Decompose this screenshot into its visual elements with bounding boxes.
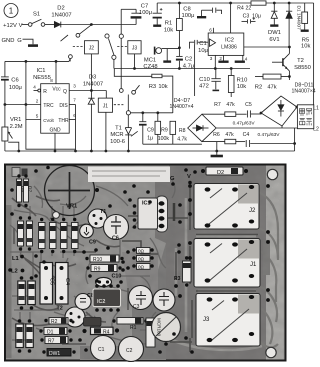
svg-text:R3: R3 — [174, 276, 181, 282]
junction — [90, 89, 93, 92]
svg-text:R4: R4 — [237, 5, 244, 11]
svg-text:D4~D7: D4~D7 — [174, 98, 190, 104]
diode D6 pcb — [17, 174, 26, 207]
ground coupling cap — [197, 16, 206, 18]
traces in dark zone — [258, 192, 278, 347]
junction — [4, 103, 7, 106]
svg-text:T2: T2 — [297, 58, 304, 64]
svg-text:0Ω: 0Ω — [138, 265, 145, 270]
svg-text:IC1: IC1 — [36, 68, 45, 74]
svg-text:C3: C3 — [133, 304, 140, 310]
svg-text:C6: C6 — [112, 236, 119, 242]
svg-text:C4: C4 — [243, 132, 250, 138]
ic IC1 pcb — [133, 196, 174, 232]
wire — [45, 24, 55, 26]
ground main — [211, 151, 223, 156]
diode D1 — [286, 3, 302, 47]
relay J1 — [194, 239, 260, 288]
junction — [55, 60, 58, 63]
svg-text:GND: GND — [49, 128, 61, 134]
svg-text:R2: R2 — [51, 319, 58, 325]
capacitor C9 — [139, 113, 154, 144]
wire +12V rail — [61, 24, 136, 26]
svg-text:0Ω: 0Ω — [138, 249, 145, 254]
resistor R4 — [237, 1, 266, 11]
svg-text:8: 8 — [50, 78, 53, 83]
wire vcc bus 555 — [5, 60, 69, 62]
svg-text:L2: L2 — [313, 127, 319, 133]
transistor T2 pcb — [57, 306, 86, 328]
junction — [178, 67, 181, 70]
resistor R6 — [202, 132, 245, 144]
svg-text:CZ48: CZ48 — [143, 64, 157, 70]
pin 6 threshold — [69, 113, 76, 120]
relay contact K2 — [61, 25, 92, 62]
svg-text:MCR100: MCR100 — [157, 318, 162, 337]
edge strip left — [6, 205, 12, 358]
svg-text:J1: J1 — [103, 104, 109, 110]
diode D2 pcb — [201, 167, 248, 176]
pin 7 discharge — [69, 98, 76, 105]
via pad — [53, 212, 60, 219]
svg-text:0.47μ/63V: 0.47μ/63V — [258, 132, 281, 138]
junction — [288, 2, 291, 5]
pcb board — [5, 165, 286, 361]
svg-text:Vcc: Vcc — [52, 87, 61, 93]
timer U1 NE555 — [33, 68, 69, 134]
svg-text:R10: R10 — [237, 78, 248, 84]
wire bridge1 to rail — [216, 142, 218, 151]
label D4-D7 — [169, 98, 193, 110]
junction — [133, 67, 136, 70]
capacitor coupling top — [202, 8, 222, 16]
svg-text:100k: 100k — [158, 136, 170, 142]
svg-text:1N4007: 1N4007 — [51, 13, 71, 19]
capacitor C2 — [176, 48, 194, 70]
junction — [156, 111, 159, 114]
svg-text:R6: R6 — [213, 132, 220, 138]
svg-text:Q: Q — [63, 89, 67, 95]
svg-text:R7: R7 — [48, 339, 55, 345]
svg-text:DW1: DW1 — [49, 351, 60, 357]
svg-text:47k: 47k — [267, 84, 276, 90]
svg-text:NE555: NE555 — [33, 75, 51, 81]
svg-text:R2: R2 — [255, 84, 262, 90]
ground plane dark zone — [155, 166, 266, 360]
diode D3 — [83, 75, 103, 152]
wire IC2 out — [244, 46, 290, 48]
relay J3 — [196, 294, 260, 347]
junction — [17, 150, 20, 153]
pin 2 trigger — [5, 99, 41, 105]
diode 1N34 pcb — [146, 318, 159, 347]
capacitor C8 — [153, 3, 195, 26]
svg-text:100-6: 100-6 — [110, 139, 125, 145]
resistor R2 pcb — [44, 318, 72, 326]
svg-text:1N4007: 1N4007 — [83, 82, 103, 88]
zener DW1 pcb — [42, 349, 75, 357]
resistor R5 — [301, 3, 311, 50]
svg-text:J2: J2 — [249, 208, 256, 214]
wire vr1 wiper to rail — [8, 142, 19, 151]
junction — [273, 2, 276, 5]
junction — [178, 46, 181, 49]
resistor R3 — [149, 74, 173, 113]
junction — [178, 2, 181, 5]
resistor R8 — [170, 121, 187, 144]
component top edge — [12, 168, 28, 177]
thyristor big pcb — [152, 313, 181, 342]
capacitor C3 — [242, 13, 261, 23]
corner patch — [88, 167, 170, 183]
bridge rectifier D4-D7 — [188, 114, 216, 141]
ic IC2 pcb — [93, 284, 121, 312]
junction — [288, 46, 291, 49]
svg-text:22: 22 — [246, 5, 252, 11]
svg-text:DIS: DIS — [59, 103, 68, 109]
zener DW1 — [268, 3, 281, 43]
mount hole bottom — [266, 347, 276, 357]
svg-text:C7: C7 — [141, 4, 148, 10]
svg-text:472: 472 — [199, 84, 209, 90]
junction — [215, 150, 218, 153]
svg-text:D2: D2 — [57, 6, 64, 12]
capacitor C10 pcb — [96, 274, 122, 287]
junction — [288, 75, 291, 78]
svg-text:J1: J1 — [250, 262, 257, 268]
svg-text:4: 4 — [33, 85, 36, 90]
relay contact K3 — [105, 34, 124, 69]
component dark pcb — [84, 318, 102, 327]
pin 6 — [209, 28, 213, 34]
light strip right column — [266, 166, 284, 360]
wire dis/thr down — [75, 105, 77, 152]
switch S1 — [28, 12, 44, 27]
relay coil J1 — [98, 91, 123, 152]
svg-text:6: 6 — [209, 28, 212, 33]
thyristor T1 — [110, 9, 139, 151]
svg-text:10k: 10k — [237, 84, 246, 90]
capacitor C9 pcb — [80, 224, 96, 245]
junction — [141, 111, 144, 114]
wire lower bus — [143, 143, 202, 145]
resistor R7 pcb — [40, 337, 72, 345]
svg-text:100μ: 100μ — [181, 13, 194, 19]
capacitor C6 pcb — [104, 215, 129, 242]
svg-text:1N4007×4: 1N4007×4 — [169, 104, 193, 110]
svg-text:0Ω: 0Ω — [138, 257, 145, 262]
junction — [54, 150, 57, 153]
svg-text:7: 7 — [73, 98, 76, 103]
resistor R9 — [155, 113, 169, 144]
pin 1 ground wire — [54, 133, 56, 151]
svg-text:4.7k: 4.7k — [177, 137, 187, 143]
wire rail upper segment — [121, 8, 136, 10]
junction — [230, 67, 233, 70]
svg-text:R9: R9 — [161, 128, 168, 134]
op-amp IC2 — [208, 33, 244, 55]
svg-text:47k: 47k — [226, 102, 235, 108]
svg-text:L1: L1 — [12, 256, 20, 262]
capacitor C4 pcb — [40, 263, 55, 305]
transistor T2 — [272, 47, 311, 80]
junction — [90, 23, 93, 26]
jumper 0R c — [137, 264, 151, 270]
wire L2 — [216, 127, 312, 129]
svg-text:IC2: IC2 — [225, 38, 234, 44]
svg-text:100μ: 100μ — [9, 85, 22, 91]
svg-text:2.2M: 2.2M — [10, 124, 23, 130]
junction — [25, 60, 28, 63]
scattered pads — [8, 166, 270, 354]
wire trigger branch — [114, 69, 152, 77]
wire branch — [194, 45, 196, 97]
wire gate bus — [131, 112, 173, 114]
junction — [74, 150, 77, 153]
svg-text:J2: J2 — [89, 46, 95, 52]
svg-text:10k: 10k — [158, 84, 167, 90]
svg-text:C6: C6 — [11, 78, 18, 84]
wire contact to bus — [69, 59, 70, 62]
junction — [293, 142, 296, 145]
wire cv loop — [26, 120, 76, 150]
junction — [260, 112, 263, 115]
wire — [22, 24, 29, 26]
ground mic — [163, 49, 171, 62]
diode D2 — [51, 6, 71, 28]
svg-text:1μ: 1μ — [147, 136, 153, 142]
resistor R10 — [228, 69, 247, 98]
junction — [25, 103, 28, 106]
svg-text:2: 2 — [219, 56, 222, 61]
svg-text:3: 3 — [73, 84, 76, 89]
capacitor C2 pcb — [119, 337, 144, 362]
svg-text:C4: C4 — [64, 278, 70, 285]
wire bottom rail — [5, 150, 295, 152]
svg-text:R: R — [43, 89, 47, 95]
svg-text:LM386: LM386 — [221, 45, 237, 51]
ground strip bottom — [80, 346, 156, 360]
wire bridge2 bottom tap — [281, 126, 283, 128]
svg-text:T1: T1 — [100, 209, 106, 215]
board blotches — [6, 166, 285, 360]
label D8-D11 — [292, 82, 316, 94]
pin 4 reset — [33, 85, 40, 92]
mount hole top — [267, 169, 277, 179]
wire J2 coil to node — [90, 54, 92, 91]
board texture — [6, 166, 285, 360]
svg-text:C9: C9 — [147, 128, 154, 134]
svg-text:C9: C9 — [89, 240, 96, 246]
figure number 1 — [4, 4, 18, 18]
svg-text:T2: T2 — [57, 306, 63, 312]
svg-text:R4: R4 — [103, 330, 110, 336]
wire rail right drop — [313, 3, 315, 107]
pin 3 — [210, 55, 216, 68]
svg-text:C8: C8 — [183, 7, 190, 13]
traces dark zone black — [122, 188, 258, 352]
svg-text:VR1: VR1 — [10, 117, 21, 123]
dark strip right of J1 — [263, 240, 270, 275]
transistor T1 pcb — [88, 209, 107, 228]
resistor pair bottom b — [16, 319, 34, 353]
svg-text:C5: C5 — [245, 102, 252, 108]
svg-text:R1: R1 — [130, 325, 137, 331]
svg-text:C2: C2 — [185, 57, 192, 63]
resistor R1 — [164, 3, 182, 48]
resistor row middle — [39, 218, 79, 253]
svg-text:R9: R9 — [94, 267, 101, 273]
svg-text:MC1: MC1 — [144, 58, 156, 64]
traces extra dark left — [12, 196, 128, 344]
junction — [214, 67, 217, 70]
svg-text:47k: 47k — [225, 132, 234, 138]
jumper 0R a — [137, 248, 151, 254]
resistor R9 pcb — [86, 265, 121, 273]
svg-text:10k: 10k — [164, 28, 173, 34]
microphone MC1 — [143, 47, 179, 70]
svg-text:V: V — [19, 23, 23, 29]
capacitor C10 — [199, 69, 221, 91]
wire cv — [26, 61, 41, 119]
capacitor C4 — [243, 128, 295, 151]
svg-text:VR1: VR1 — [66, 204, 78, 210]
junction — [295, 106, 298, 109]
junction — [105, 150, 108, 153]
svg-text:S8550: S8550 — [294, 65, 311, 71]
wire top rail — [157, 2, 313, 4]
wire Vcc IC2 — [230, 3, 232, 33]
pin 4 ground — [235, 55, 248, 61]
svg-text:C5: C5 — [49, 278, 55, 285]
capacitor C1 pcb — [91, 336, 116, 361]
capacitor C7 — [131, 4, 152, 25]
svg-text:G: G — [17, 38, 22, 44]
svg-text:100μ: 100μ — [139, 10, 152, 16]
svg-text:2: 2 — [36, 99, 39, 104]
traces left — [10, 180, 175, 344]
svg-text:R1: R1 — [165, 21, 172, 27]
resistor R10 pcb — [85, 255, 123, 263]
resistor R4 pcb — [82, 327, 119, 335]
ground patch mid — [122, 252, 158, 304]
svg-text:+12V: +12V — [3, 23, 17, 29]
svg-text:C1: C1 — [98, 347, 105, 353]
resistor R2 — [255, 74, 290, 90]
wire J3 coil down — [134, 54, 136, 69]
svg-text:5: 5 — [36, 114, 39, 119]
svg-text:R8: R8 — [179, 128, 186, 134]
svg-text:V: V — [187, 174, 191, 180]
svg-text:C10: C10 — [112, 274, 122, 280]
relay coil J3 — [117, 41, 141, 54]
potentiometer VR1 pcb — [45, 166, 95, 216]
wire audio bus — [114, 68, 250, 70]
svg-text:T1: T1 — [115, 126, 122, 132]
svg-text:S1: S1 — [33, 12, 40, 18]
ground — [28, 44, 38, 47]
jumper 0R b — [137, 256, 151, 262]
svg-text:1: 1 — [9, 6, 14, 15]
svg-text:MCR: MCR — [110, 132, 123, 138]
svg-text:TRC: TRC — [43, 103, 54, 109]
svg-text:C3: C3 — [243, 13, 250, 19]
svg-text:J3: J3 — [203, 317, 210, 323]
phone line box — [297, 105, 313, 129]
svg-text:1N4007×4: 1N4007×4 — [292, 89, 316, 95]
svg-text:THR: THR — [58, 118, 69, 124]
capacitor C6 — [1, 61, 22, 127]
svg-text:R3: R3 — [149, 84, 156, 90]
junction — [90, 150, 93, 153]
svg-text:0.47μ/63V: 0.47μ/63V — [233, 120, 256, 126]
capacitor C5 pcb — [56, 263, 71, 305]
pad G — [170, 176, 175, 186]
pin 3 output — [69, 84, 106, 91]
capacitor C8 pcb — [75, 293, 94, 310]
capacitor C3 pcb — [129, 286, 153, 311]
capacitor C1 — [190, 40, 209, 54]
wire — [23, 39, 34, 44]
svg-text:3: 3 — [210, 56, 213, 61]
junction — [229, 2, 232, 5]
svg-text:GND: GND — [2, 38, 15, 44]
svg-text:D8~D11: D8~D11 — [295, 82, 314, 88]
pad V — [187, 174, 192, 184]
resistor pair left — [18, 216, 33, 250]
svg-text:6V1: 6V1 — [269, 37, 279, 43]
resistor pair bottom a — [18, 276, 36, 310]
svg-text:10k: 10k — [301, 44, 310, 50]
svg-text:L2: L2 — [11, 269, 18, 275]
svg-text:D2: D2 — [217, 170, 224, 176]
pin 2 ground — [218, 55, 228, 61]
ground plane left lobe — [132, 243, 166, 360]
pin 8 — [50, 61, 56, 83]
svg-text:DW1: DW1 — [268, 30, 281, 36]
diode D7 pcb — [24, 174, 33, 207]
svg-text:C10: C10 — [199, 77, 210, 83]
svg-text:IC2: IC2 — [97, 299, 105, 305]
svg-text:10μ: 10μ — [198, 48, 208, 54]
node GND — [2, 38, 23, 44]
bridge rectifier D8-D11 — [261, 96, 297, 126]
relay J2 — [194, 184, 259, 230]
svg-text:C2: C2 — [126, 348, 133, 354]
svg-text:CVolt: CVolt — [43, 118, 54, 123]
svg-text:R10: R10 — [93, 257, 102, 263]
svg-text:D1 1N4007: D1 1N4007 — [296, 6, 302, 31]
resistor R3 pcb — [174, 256, 191, 286]
svg-text:R7: R7 — [214, 102, 221, 108]
svg-text:L1: L1 — [313, 106, 319, 112]
resistor R1 pcb — [112, 318, 147, 332]
potentiometer VR1 — [2, 117, 23, 151]
resistor R7 — [202, 102, 247, 116]
svg-text:D3: D3 — [89, 75, 96, 81]
svg-text:G: G — [170, 176, 175, 182]
svg-text:4: 4 — [245, 57, 248, 62]
wire L1 — [297, 106, 314, 108]
capacitor C7 pcb — [153, 289, 175, 311]
capacitor C5 — [233, 102, 261, 126]
svg-text:D1: D1 — [47, 330, 54, 336]
junction — [127, 150, 130, 153]
svg-text:D7: D7 — [27, 186, 33, 192]
diode D1 pcb — [39, 328, 71, 336]
svg-text:J3: J3 — [132, 46, 138, 52]
relay coil J2 — [73, 41, 99, 54]
